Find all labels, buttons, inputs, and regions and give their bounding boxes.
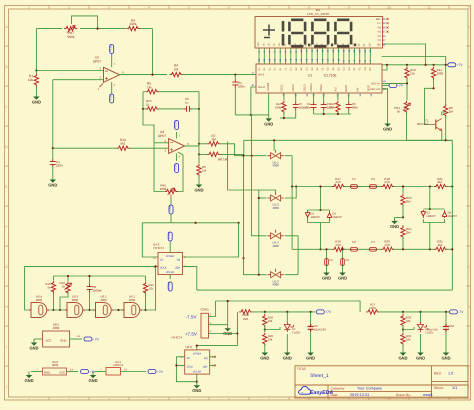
connector CON1 outline [201,313,209,338]
diode network D3 D4 loop [423,208,444,210]
inverter U6.4 [31,303,47,318]
svg-text:GND: GND [416,355,425,360]
title block outline [295,366,468,398]
svg-text:2E: 2E [321,43,324,46]
svg-text:12: 12 [467,5,471,9]
wire R25 to right vertical [446,248,452,250]
ground below U8 [420,349,422,353]
svg-text:5: 5 [188,397,190,401]
EasyEDA logo [299,387,334,397]
svg-text:GND: GND [192,388,201,393]
wire D4 loop bottom drop [429,223,431,250]
svg-text:100k: 100k [160,187,167,191]
wire T1 collector up [442,112,446,116]
resistor R31 [402,328,404,332]
svg-text:4066: 4066 [272,283,279,287]
svg-text:1G: 1G [294,43,297,46]
wire R15 row left join [143,108,146,110]
svg-text:2k4: 2k4 [438,180,443,184]
wire left branch down to inverter chain [25,266,31,310]
svg-text:2k4: 2k4 [406,200,411,204]
power flag +7V for U4.1 [148,370,156,374]
svg-text:7: 7 [268,5,270,9]
capacitor C2 under U1 [313,93,315,102]
U4.2 PRE wire [196,346,198,350]
ground below R31 [402,349,404,353]
wire U2 pin3 [53,79,104,81]
svg-text:GND: GND [44,370,50,374]
svg-text:GND: GND [383,126,392,131]
diode D2 [327,211,332,219]
capacitor C4 [52,148,54,159]
svg-text:2Q#: 2Q# [175,267,180,270]
svg-text:OP07: OP07 [158,134,166,138]
svg-text:2D: 2D [160,259,163,262]
svg-text:4069: 4069 [129,298,136,302]
power flag +7V left supply [316,310,324,314]
svg-text:GND: GND [441,355,450,360]
svg-text:3: 3 [108,397,110,401]
svg-text:100k: 100k [275,106,282,110]
svg-text:1Q: 1Q [204,357,207,360]
svg-text:GND: GND [322,275,331,280]
svg-text:IN-HI: IN-HI [258,74,264,77]
wire U4.2 CLR down [196,374,198,382]
svg-text:1E: 1E [284,43,287,46]
resistor R15 oscillator [51,281,55,294]
wire feedback left down to pin2 row [143,109,154,143]
ground left of U4.1 [92,372,94,376]
no-connect marks U4.2 [214,356,216,367]
svg-text:1k: 1k [146,103,150,107]
wire right vertical x452 [451,140,453,290]
potentiometer PR7 [64,26,77,30]
wire R30R31 to U8 ref [403,327,414,330]
resistor R19 [332,247,345,251]
wire R15 to C6 [159,108,185,110]
svg-text:1D: 1D [278,43,281,46]
wire backplane A [383,44,426,65]
node junction op-amp input [35,69,37,71]
wire bus x243 down [243,156,245,259]
ground below R6 [198,181,200,185]
resistor R1 [35,71,37,74]
power flag below U4.3 [168,282,172,291]
wire rail under U1 [280,117,296,119]
svg-text:3C: 3C [347,43,350,46]
LCD right no-connect marks [387,18,389,33]
ground below C4 [52,176,54,180]
svg-text:weqi1: weqi1 [423,393,433,397]
wire U2 V- to flag [111,82,113,88]
wire feedback R3 node down to output [152,29,154,75]
wire CON1 pin2 to ground [209,324,228,326]
svg-text:4069: 4069 [53,326,60,330]
resistor R23 [402,187,404,194]
svg-text:R26: R26 [243,317,249,321]
wire U3 V+ flag [176,132,178,139]
wire R14 to U3 pin3 [130,147,169,149]
svg-text:P+: P+ [378,22,382,25]
svg-text:G: G [467,265,470,269]
wire R27 to right flag [379,311,450,313]
svg-text:1M: 1M [147,85,152,89]
node junction output [151,74,153,76]
svg-text:CON1: CON1 [201,308,210,312]
wire rail drop R22 [145,276,147,281]
wire U5.2 input [259,197,267,199]
svg-text:1Q#: 1Q# [203,366,208,369]
wire rail drop C8 [89,276,91,284]
wire U5.2 control elbow [228,141,276,192]
resistor R21 [434,184,447,188]
svg-text:G: G [5,265,8,269]
svg-text:1PRE#: 1PRE# [193,353,202,356]
wire C6 right to node [192,108,199,110]
wire PR7 wiper loop [72,16,98,29]
wire R18 to R21 [393,186,434,188]
svg-text:5k: 5k [397,110,401,114]
potentiometer PR2 [66,282,70,295]
svg-text:GND: GND [194,187,203,192]
svg-text:2B: 2B [305,43,308,46]
wire U4.1 right flag [121,371,147,373]
svg-text:Drawn By:: Drawn By: [396,393,411,397]
svg-text:8: 8 [308,5,310,9]
wire rail drop R15 [53,276,55,280]
svg-text:5k1: 5k1 [120,142,125,146]
node junction PR7 wiper [97,28,99,30]
svg-text:4066: 4066 [272,244,279,248]
power flag +7V top right [448,63,456,67]
svg-text:U1: U1 [308,74,312,78]
analog switch U5.2 [271,195,281,201]
wire R28R29 to U7 ref [265,327,280,330]
wire pin3 down to R14 node [52,80,54,149]
wire rail y301 [215,301,360,312]
wire CON1 pin2 riser [227,301,229,325]
svg-text:1CLK: 1CLK [187,366,194,369]
ground below U7 [286,349,288,353]
power flag +7V for U6.6 [81,370,89,374]
svg-text:I: I [468,345,469,349]
svg-text:2PRE#: 2PRE# [166,255,175,258]
LCD digit 8 third [337,20,349,46]
analog switch U5.4 [271,233,281,239]
U2 pin1 stub [100,84,104,88]
fuse F1 [344,186,350,188]
svg-text:REF-LO: REF-LO [370,88,380,91]
svg-text:OSC1: OSC1 [280,84,283,92]
wire CON1 pin3 [209,333,238,335]
svg-text:+7V: +7V [325,310,332,314]
wire R11 elbow to T1 base [425,88,434,124]
svg-text:CREF+: CREF+ [310,82,313,91]
wire U6.2 out [114,309,124,311]
resistor R20 [377,248,382,250]
resistor R28 [264,312,266,314]
svg-text:3A: 3A [337,43,340,46]
wire U5.3 input [244,258,267,274]
wire R4 to IN-HI [183,74,257,76]
resistor R9 [444,104,448,117]
node junction feedback right [198,108,200,110]
ground under U1 [268,115,270,119]
capacitor C10 [445,312,447,324]
resistor R14 [117,146,130,150]
svg-text:4069: 4069 [36,298,43,302]
svg-text:TL431: TL431 [292,331,300,335]
svg-text:-7V: -7V [398,84,404,88]
wire U2 V+ to flag [111,61,113,67]
svg-text:POL: POL [257,41,260,46]
svg-text:500k: 500k [68,35,75,39]
svg-text:TITLE:: TITLE: [297,367,307,371]
wire U2 pin2 [36,70,103,72]
svg-text:680n: 680n [352,106,359,110]
LCD to IC wires [259,48,370,64]
svg-text:GND: GND [390,224,399,229]
svg-text:+7.5V: +7.5V [185,332,198,337]
svg-text:GND: GND [24,378,33,383]
diode D3 [421,210,426,218]
wire U5.2 output up to rail [285,187,297,199]
svg-text:4: 4 [148,397,150,401]
wire U3 V- flag [176,154,178,162]
svg-text:4066: 4066 [272,206,279,210]
resistor R3 [127,26,140,30]
wire R10 to PR1 [406,79,408,100]
wire left branch down to R1 [35,29,37,71]
LCD module M1 outline [255,17,383,49]
svg-text:P1: P1 [378,39,382,42]
wire U5.1 output [285,155,292,157]
svg-text:4: 4 [148,5,150,9]
wire PR5 right up to U3 pin1 [178,152,184,192]
svg-text:IN-LO: IN-LO [258,86,265,89]
svg-text:74HC74: 74HC74 [171,336,182,340]
wire R26 feed from below [236,312,238,346]
ground left of U6.6 [28,372,30,376]
fuse F3 [370,185,377,189]
flip-flop U4.2 74HC74 outline [185,350,210,374]
lower rail y249 [292,248,332,250]
LCD digit 8 second [314,20,326,46]
power part U6.6 4069 outline [43,368,67,375]
wire U4.1 left ground [95,371,106,373]
wire U3 pin2 feedback left [154,142,169,144]
svg-text:74HC74: 74HC74 [153,246,164,250]
resistor R17 [332,184,345,188]
wire measurement rail y186 [292,186,332,188]
wire U4.3 2Q# to rail y290 [183,266,197,290]
svg-text:-7.5V: -7.5V [168,205,172,212]
node junction U3 out [198,143,200,145]
svg-text:1M: 1M [449,110,454,114]
svg-text:15k: 15k [410,72,415,76]
svg-text:2: 2 [68,397,70,401]
resistor R27 [366,310,379,314]
svg-text:BP: BP [369,67,372,71]
svg-text:GND: GND [48,182,57,187]
svg-text:10k: 10k [268,319,273,323]
svg-text:2CLK: 2CLK [160,267,167,270]
op-amp U2 [104,67,120,82]
wire backplane B [382,56,446,58]
svg-text:OSC3: OSC3 [304,84,307,92]
wire loop right leg to 2Q [183,223,239,257]
power flag +7.5V above U2 [110,45,114,54]
svg-text:3D: 3D [352,43,355,46]
IC U1 ICL7106 outline [256,64,382,93]
node junction D4 drop [429,248,431,250]
LCD digit 1 [282,21,285,46]
analog switch U5.3 [271,272,281,278]
svg-text:3E: 3E [358,43,361,46]
svg-text:1/1: 1/1 [452,386,457,390]
svg-text:1N4007: 1N4007 [333,216,343,219]
U1 V+ wire [382,65,387,70]
capacitor C1 [234,75,236,80]
ground below C9 [310,349,312,353]
gate U6.5 4069 buffer outline [43,331,70,347]
analog switch U5.1 [271,153,281,159]
wire U6.1 out to feedback [143,266,156,310]
ground below C10 [445,349,447,353]
wire out split [199,143,207,145]
wire PR5 wiper down [170,199,172,206]
power flag -7.5V below U3 [175,164,179,173]
svg-text:2Q: 2Q [177,259,180,262]
wire R21 to right vertical [446,186,452,188]
power part U4.1 74HC74 outline [106,368,121,376]
svg-text:74HC74: 74HC74 [113,363,124,367]
wire IN-LO down to C1 rail [251,87,256,115]
svg-text:1.0: 1.0 [448,372,453,376]
ground below U4.2 [196,382,198,386]
TL431 U8 [420,312,422,322]
svg-text:1N4007: 1N4007 [311,216,321,219]
node junction bus x243 [242,257,244,259]
resistor R29 [264,328,266,332]
svg-text:6: 6 [228,5,230,9]
svg-text:2C: 2C [310,43,313,46]
wire D3 feed [429,187,431,210]
wire U6.5 left to ground [34,338,43,340]
resistor R15 feedback [146,107,159,111]
diode D4 [442,210,447,218]
svg-text:F: F [467,225,469,229]
capacitor C6 [184,106,192,112]
power flag -7V right supply [450,310,458,314]
svg-text:BC547C: BC547C [417,122,429,126]
power flag -7V [382,84,389,86]
wire U4.3 PRE flag [169,241,171,253]
svg-text:+7.5V: +7.5V [174,120,178,128]
wire U6.6 right flag [67,371,79,373]
svg-text:1CLR#: 1CLR# [193,371,202,374]
wire C2 C5 R13 C3 rail [314,113,351,115]
svg-text:REF-HI: REF-HI [371,83,380,86]
svg-text:COMM: COMM [267,83,270,91]
svg-text:+7V: +7V [93,337,100,341]
resistor R13 under U1 [337,93,339,100]
svg-text:1M: 1M [211,138,216,142]
svg-text:F2: F2 [352,240,356,244]
svg-text:2019-12-01: 2019-12-01 [350,393,369,397]
node junction R30 R31 [402,328,404,330]
node junctions left supply [264,311,266,313]
svg-text:12k: 12k [149,287,154,291]
ground below R1 [35,93,37,97]
svg-text:1C: 1C [273,43,276,46]
wire U5.4-U5.3 link x298 [297,236,299,275]
svg-text:-7.5V: -7.5V [186,315,198,320]
power flag -7.5V below U2 [110,94,114,103]
svg-text:P3: P3 [378,31,382,34]
ground below R29 [264,349,266,353]
svg-text:-7.5V: -7.5V [109,94,113,101]
wire top rail to PR7 and R3 [36,28,62,30]
wire CON1 pin1 up to rail y301 [209,301,216,317]
svg-text:GND: GND [306,355,315,360]
svg-text:LCD_3.5_DIP40: LCD_3.5_DIP40 [307,12,329,16]
diode D1 [305,211,310,219]
fuse F6 vertical [342,249,344,258]
svg-text:10: 10 [387,5,391,9]
svg-text:F3: F3 [371,177,375,181]
svg-text:220k: 220k [130,22,137,26]
svg-text:11: 11 [427,5,431,9]
node junction C1 [234,74,236,76]
ground left of R23 [395,216,404,218]
resistor R10 [406,65,408,66]
svg-text:EasyEDA: EasyEDA [310,390,333,396]
svg-text:BAT: BAT [376,18,381,21]
wire bus x258 for switches [258,190,260,275]
inverter U6.3 [67,303,83,318]
svg-text:A-Z: A-Z [334,87,337,92]
wire R9 top from rail [445,57,447,105]
svg-text:-7V: -7V [459,310,465,314]
svg-text:1: 1 [28,397,30,401]
svg-text:GND: GND [29,345,38,350]
wire F2-F4 [358,248,370,250]
wire U3 output [185,145,200,147]
svg-text:1u: 1u [185,100,189,104]
svg-text:2: 2 [68,5,70,9]
svg-text:P2: P2 [378,35,382,38]
potentiometer PR1 [404,101,408,114]
resistor R6 [198,154,200,163]
inverter U6.2 [96,303,112,318]
svg-text:F1: F1 [352,177,356,181]
wire switch output bus x292 [291,156,293,250]
svg-text:+7V: +7V [457,63,464,67]
node junction R14 left [52,147,54,149]
wire U4.3 Q to D loop [142,222,238,224]
LCD plus-minus sign [263,25,275,38]
resistor R26 [239,310,252,314]
wire R14 from pin3 node [53,147,117,149]
svg-text:2G: 2G [331,43,334,46]
node junction D3 feed [429,185,431,187]
wire U4.2 outputs [210,356,215,358]
svg-text:1N4007: 1N4007 [426,215,436,218]
power flag +7V for U6.5 [84,337,92,341]
svg-text:ICL7106: ICL7106 [324,74,337,78]
wire U6.6 left ground [31,371,43,373]
